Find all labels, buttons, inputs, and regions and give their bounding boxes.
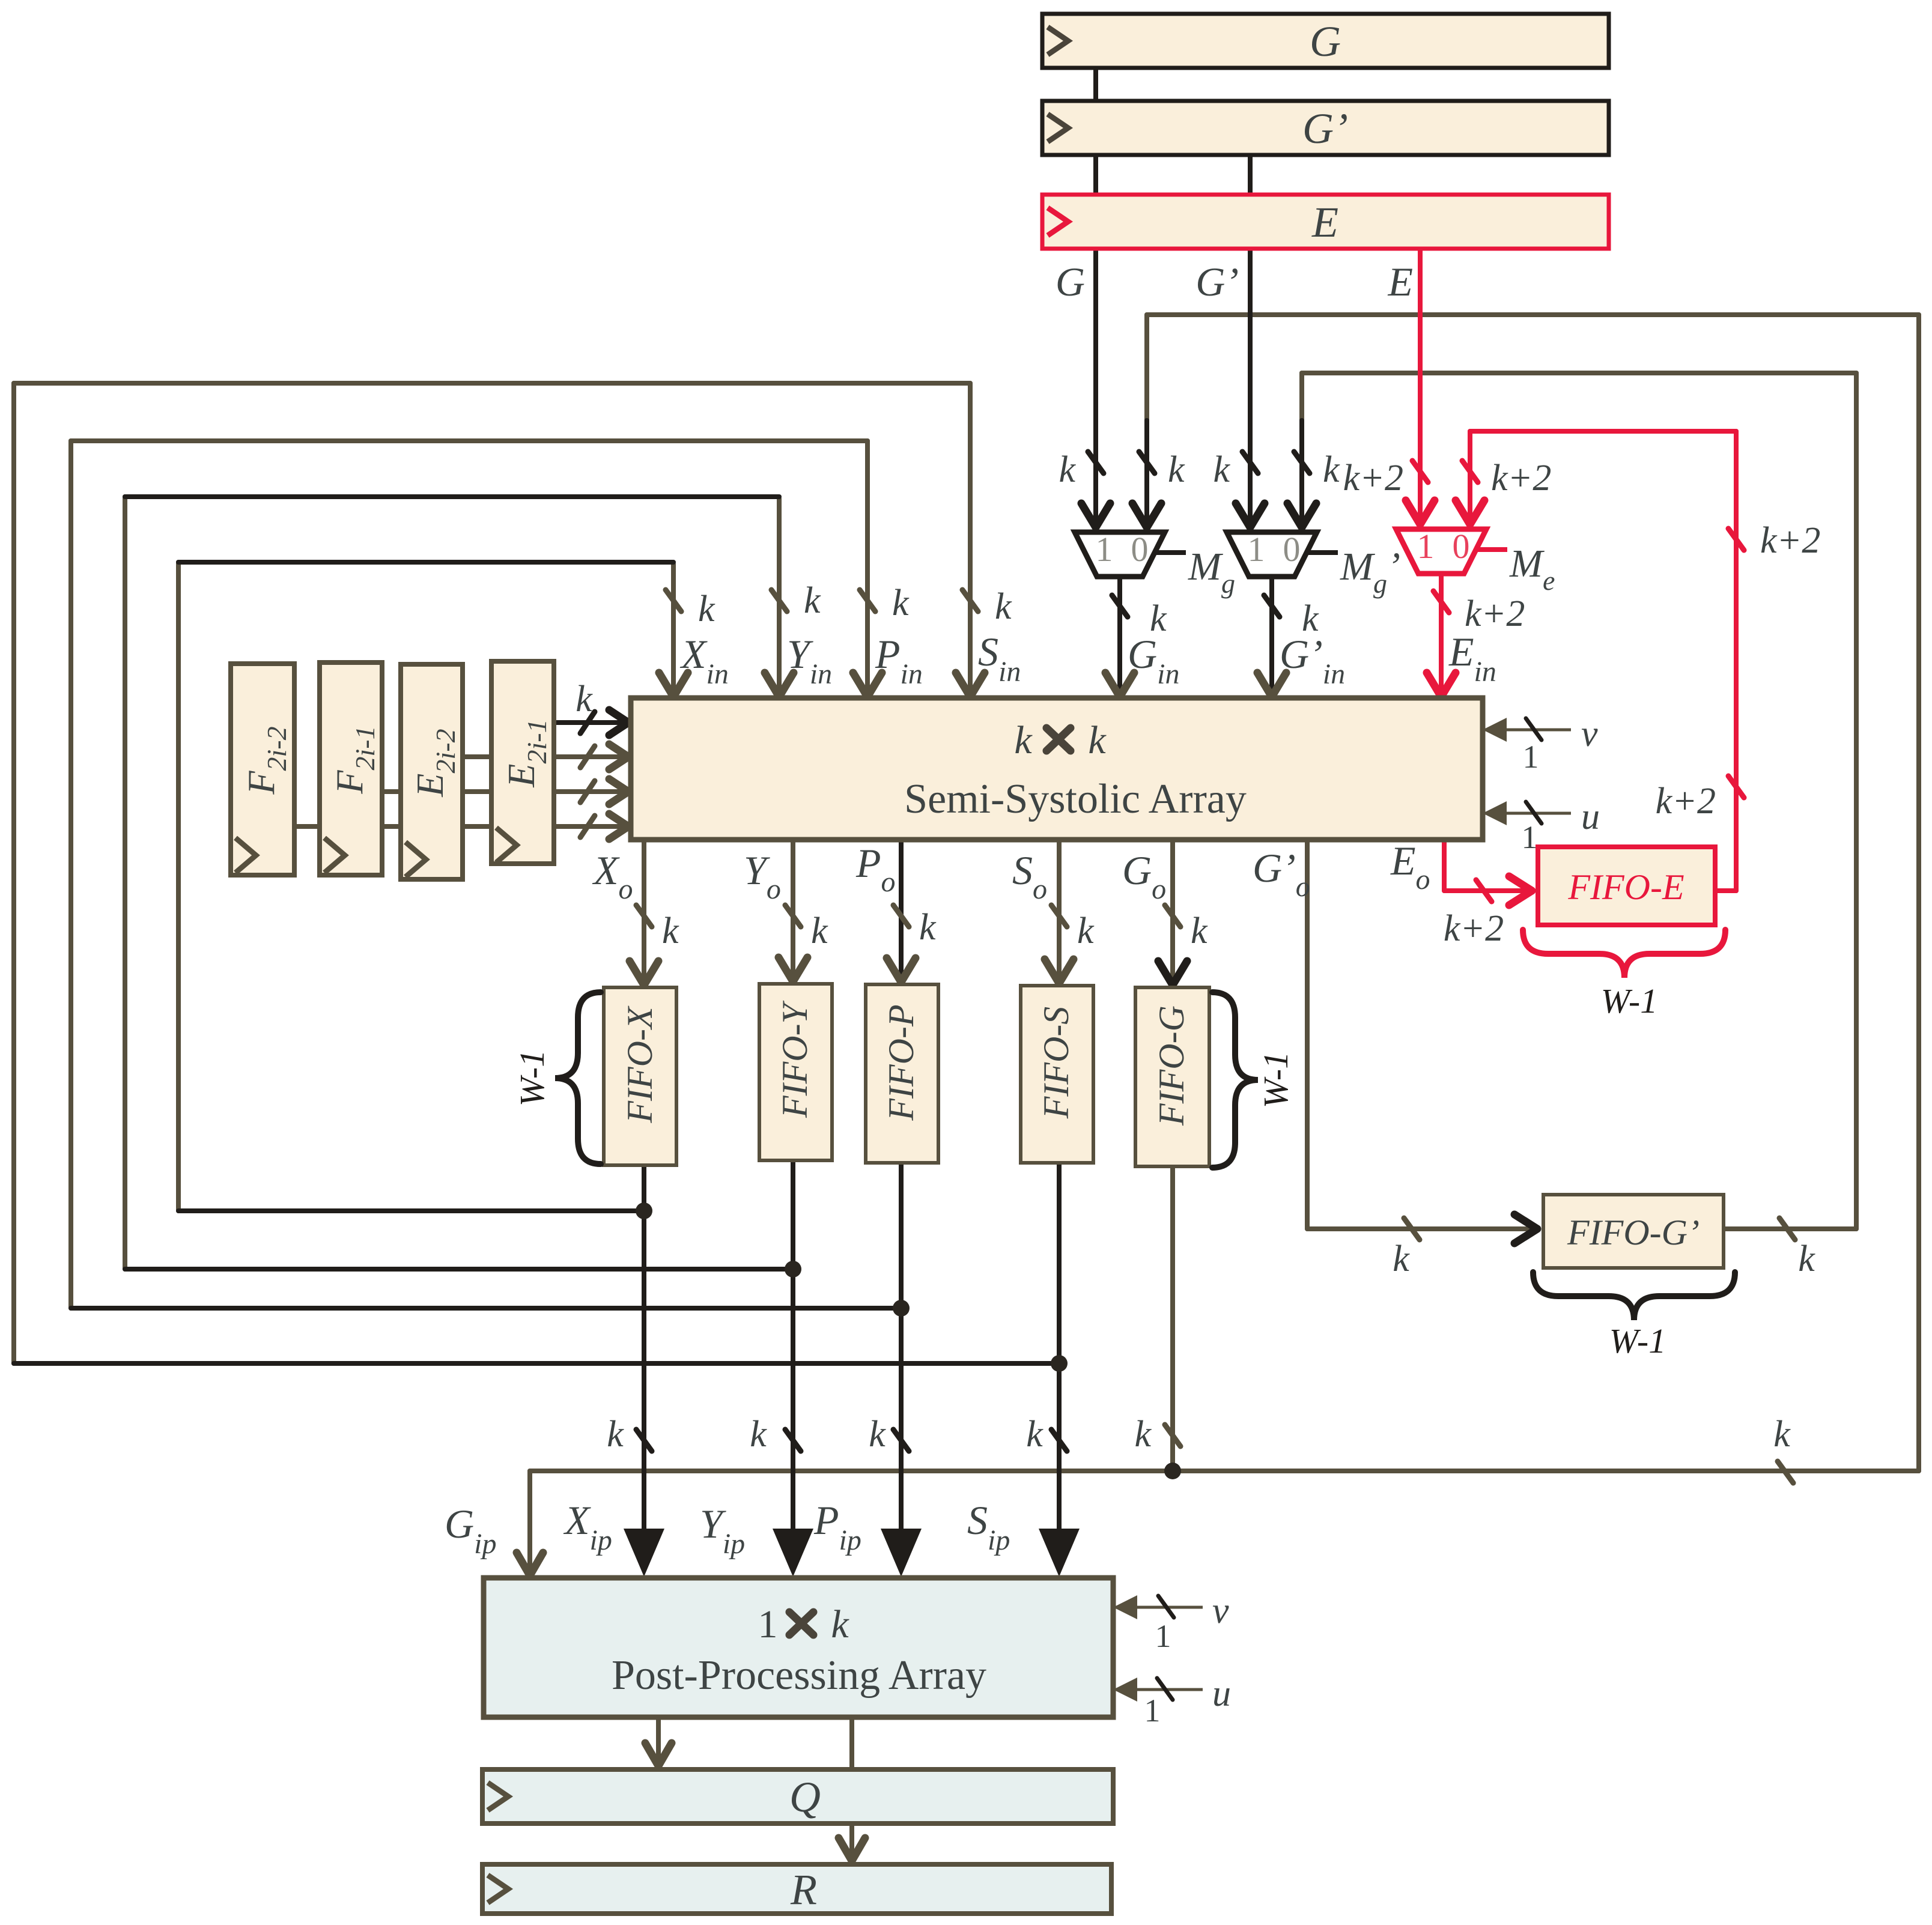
mux Mg — [1075, 530, 1235, 599]
arrowhead Eo into FIFO-E — [1509, 876, 1532, 905]
arrowhead So into FIFO-S — [1045, 959, 1074, 983]
svg-text:1: 1 — [1096, 530, 1113, 569]
svg-text:k: k — [1134, 1414, 1152, 1455]
svg-text:So: So — [1012, 847, 1047, 905]
arrowhead Go loop into Mg — [1132, 503, 1161, 527]
wire G-loop drop into Mg — [1144, 420, 1149, 525]
svg-text:k+2: k+2 — [1444, 908, 1504, 949]
wire FIFO-G output down to rail — [1170, 1166, 1175, 1471]
arrowhead E into Me — [1406, 500, 1435, 524]
arrowhead Sip into PPA (solid) — [1039, 1529, 1080, 1577]
wire row3 F2i-1 to array — [382, 789, 621, 794]
svg-text:k: k — [1191, 911, 1208, 951]
svg-text:k+2: k+2 — [1343, 458, 1403, 499]
register E2i-2 — [401, 664, 463, 879]
arrowhead row2 into array — [609, 744, 628, 769]
svg-text:Po: Po — [855, 840, 896, 898]
wire Eo into FIFO-E — [1444, 888, 1523, 893]
svg-text:G’o: G’o — [1253, 845, 1310, 903]
slash on row3 arrow — [580, 781, 595, 802]
register F2i-1 — [320, 662, 382, 875]
slash on G' wire — [1242, 452, 1258, 473]
wire S-loop left vertical — [11, 383, 16, 1363]
brace W-1 under FIFO-G' — [1533, 1272, 1735, 1320]
svg-text:FIFO-G’: FIFO-G’ — [1567, 1213, 1700, 1252]
wire X-loop left vertical — [176, 562, 181, 1211]
arrowhead Yin — [765, 673, 794, 697]
arrowhead Yip into PPA (solid) — [773, 1529, 813, 1577]
svg-text:k: k — [698, 589, 715, 629]
slash on Yin wire — [771, 590, 787, 611]
wire Xo array to FIFO-X — [642, 840, 646, 979]
svg-text:1: 1 — [758, 1602, 778, 1646]
wire Yin vertical — [777, 499, 782, 691]
wire P-loop left vertical — [68, 441, 73, 1308]
wire PPA to Q left link — [656, 1717, 661, 1761]
svg-text:G: G — [1310, 17, 1341, 65]
slash on E-loop right vertical lower — [1728, 776, 1744, 798]
FIFO-S box — [1021, 986, 1093, 1163]
slash on FIFO-P output — [893, 1429, 909, 1451]
svg-text:0: 0 — [1131, 530, 1149, 569]
wire G'-loop top horizontal — [1302, 371, 1856, 375]
arrowhead G'o into FIFO-G' — [1514, 1214, 1537, 1243]
svg-text:Post-Processing Array: Post-Processing Array — [612, 1652, 986, 1699]
wire G'-loop right vertical — [1854, 373, 1859, 1229]
svg-text:G: G — [1056, 259, 1085, 305]
wire Mg output Gin — [1117, 577, 1122, 691]
arrowhead v into PPA (solid) — [1113, 1595, 1137, 1619]
svg-text:k: k — [831, 1602, 849, 1646]
svg-text:k: k — [804, 580, 821, 621]
svg-text:k: k — [1323, 449, 1340, 490]
wire FIFO-S output to PPA — [1057, 1163, 1062, 1569]
register E — [1042, 195, 1609, 249]
arrowhead Gin — [1105, 673, 1134, 697]
arrowhead row3 into array — [609, 779, 628, 804]
wire PPA to Q right link — [849, 1717, 854, 1769]
wire Me output Ein — [1439, 574, 1444, 691]
slash on u line of PPA — [1157, 1678, 1173, 1700]
svg-text:E: E — [1311, 198, 1338, 246]
arrowhead Xip into PPA (solid) — [624, 1529, 664, 1577]
wire FIFO-E output — [1715, 888, 1736, 893]
slash on row4 arrow — [580, 816, 595, 837]
arrowhead Q to R — [839, 1838, 865, 1861]
arrowhead Xo into FIFO-X — [630, 961, 658, 985]
slash on Ein wire — [1433, 591, 1449, 613]
arrowhead G'o loop into Mg' — [1287, 503, 1316, 527]
arrowhead u into array (solid) — [1483, 801, 1507, 825]
svg-text:Pin: Pin — [875, 631, 923, 690]
slash on Pin wire — [860, 590, 875, 611]
wire Y-loop top horizontal — [125, 494, 779, 499]
register E2i-1 — [491, 661, 554, 864]
slash on Sin wire — [962, 590, 978, 611]
wire v input of array — [1483, 729, 1571, 732]
svg-text:Gip: Gip — [445, 1501, 496, 1560]
wire FIFO-Y output to PPA — [791, 1160, 795, 1569]
svg-text:Go: Go — [1122, 847, 1166, 905]
svg-text:1: 1 — [1523, 739, 1539, 775]
svg-text:Sip: Sip — [967, 1497, 1010, 1556]
svg-text:k: k — [576, 679, 593, 720]
slash on u line of array — [1526, 802, 1542, 823]
wire Po array to FIFO-P — [899, 840, 904, 976]
svg-text:W-1: W-1 — [1609, 1321, 1666, 1360]
svg-text:1: 1 — [1248, 530, 1265, 569]
svg-text:Q: Q — [789, 1773, 821, 1821]
slash on Gin wire — [1112, 595, 1128, 617]
wire Pin vertical — [865, 441, 870, 691]
register F2i-2 — [231, 664, 294, 875]
register R — [482, 1864, 1111, 1914]
slash on Yo wire — [785, 905, 801, 927]
wire E register output — [1418, 249, 1423, 522]
arrowhead Gip into PPA — [517, 1553, 543, 1575]
svg-text:k: k — [995, 586, 1012, 627]
svg-text:k: k — [1213, 449, 1230, 490]
wire G-loop bottom horizontal (Gip rail) — [530, 1469, 1919, 1473]
FIFO-E box — [1538, 847, 1715, 925]
slash on G wire — [1088, 452, 1104, 473]
svg-text:k: k — [1026, 1414, 1043, 1455]
slash on E-loop right vertical upper — [1728, 529, 1744, 550]
register Q — [482, 1769, 1113, 1823]
svg-text:1: 1 — [1522, 819, 1538, 855]
wire P-loop bottom horizontal — [71, 1306, 901, 1311]
slash on FIFO-S output — [1051, 1429, 1067, 1451]
svg-text:FIFO-Y: FIFO-Y — [775, 1000, 815, 1118]
slash on E wire — [1412, 461, 1428, 482]
svg-text:k: k — [1059, 449, 1076, 490]
wire Sin vertical — [968, 383, 973, 691]
svg-text:R: R — [790, 1866, 817, 1914]
svg-text:Yip: Yip — [700, 1501, 745, 1560]
arrowhead v into array (solid) — [1483, 718, 1507, 742]
svg-text:G’in: G’in — [1280, 631, 1345, 690]
slash on FIFO-Y output — [785, 1429, 801, 1451]
wire u input of PPA — [1113, 1688, 1203, 1691]
wire S-loop bottom horizontal — [14, 1361, 1059, 1366]
slash on v line of PPA — [1158, 1596, 1174, 1617]
wire Y-loop left vertical — [123, 497, 127, 1269]
svg-text:k: k — [892, 583, 910, 623]
svg-text:k+2: k+2 — [1491, 458, 1551, 499]
svg-text:v: v — [1581, 714, 1598, 754]
FIFO-G box — [1135, 987, 1209, 1166]
svg-text:k: k — [1393, 1238, 1410, 1279]
slash on G'in wire — [1264, 595, 1280, 617]
wire G-loop drop upper part — [1144, 315, 1149, 420]
svg-text:FIFO-E: FIFO-E — [1567, 867, 1684, 907]
slash on G'o feedback wire — [1294, 452, 1310, 473]
brace W-1 left of FIFO-X — [555, 992, 601, 1164]
svg-text:Mg: Mg — [1188, 545, 1235, 599]
wire E-loop drop into Me — [1468, 431, 1472, 522]
wire G-loop right vertical — [1916, 315, 1921, 1471]
wire E-loop top horizontal — [1470, 429, 1736, 434]
wire row2 E2i-2 to array — [463, 754, 621, 759]
arrowhead Sin — [956, 673, 985, 697]
slash on So wire — [1051, 905, 1067, 927]
register G' — [1042, 101, 1609, 155]
slash on FIFO-X output — [636, 1429, 652, 1451]
slash on FIFO-G output — [1165, 1425, 1180, 1446]
slash on Xin wire — [666, 590, 681, 611]
wire G'-loop drop into Mg' — [1299, 420, 1304, 525]
svg-text:0: 0 — [1283, 530, 1301, 569]
svg-text:k: k — [1088, 718, 1107, 762]
arrowhead G'in — [1257, 673, 1286, 697]
slash on row2 arrow — [580, 746, 595, 768]
wire Xin vertical — [671, 564, 676, 691]
svg-text:k: k — [869, 1414, 886, 1455]
slash on Go feedback wire — [1139, 452, 1155, 473]
junction dot Y loop — [785, 1261, 801, 1278]
wire FIFO-P output to PPA — [899, 1163, 904, 1569]
wire G' register output — [1248, 155, 1253, 525]
arrowhead G' into Mg' — [1236, 503, 1265, 527]
wire G-loop top horizontal — [1147, 312, 1919, 317]
svg-text:Yin: Yin — [787, 631, 832, 690]
arrowhead Eo-loop into Me — [1456, 500, 1484, 524]
slash on Eo-loop drop — [1462, 461, 1478, 482]
arrowhead Pip into PPA (solid) — [881, 1529, 922, 1577]
slash on row1 arrow — [580, 712, 595, 733]
FIFO-X box — [604, 987, 676, 1165]
wire FIFO-G' output to right — [1724, 1226, 1856, 1231]
svg-text:Gin: Gin — [1128, 631, 1179, 690]
svg-text:k+2: k+2 — [1656, 781, 1716, 822]
svg-text:k: k — [750, 1414, 767, 1455]
svg-text:G’: G’ — [1302, 105, 1348, 153]
svg-text:v: v — [1212, 1590, 1229, 1631]
svg-text:E: E — [1387, 259, 1413, 305]
mux Mg' — [1227, 530, 1400, 599]
svg-text:k: k — [811, 911, 828, 951]
svg-text:k: k — [1168, 449, 1185, 490]
mux Me — [1396, 527, 1555, 596]
slash on Go wire — [1165, 905, 1180, 927]
wire v input of PPA — [1113, 1606, 1203, 1609]
wire row4 F2i-2 to array — [294, 824, 621, 829]
svg-text:0: 0 — [1453, 527, 1470, 566]
svg-text:u: u — [1581, 796, 1600, 837]
wire G'o array down — [1305, 840, 1310, 1229]
semi-systolic array box — [631, 698, 1483, 840]
arrowhead Yo into FIFO-Y — [779, 957, 807, 981]
arrowhead Po into FIFO-P — [887, 958, 916, 982]
wire Eo down from array — [1442, 840, 1447, 891]
wire row1 E2i-1 to array — [554, 720, 621, 725]
svg-text:FIFO-X: FIFO-X — [620, 1005, 660, 1124]
wire Yo array to FIFO-Y — [791, 840, 795, 975]
wire Mg' output G'in — [1269, 577, 1274, 691]
brace W-1 right of FIFO-G — [1212, 992, 1258, 1168]
svg-text:W-1: W-1 — [1601, 981, 1657, 1020]
junction dot S loop — [1051, 1355, 1068, 1372]
svg-text:k: k — [1798, 1238, 1815, 1279]
register G — [1042, 14, 1609, 68]
svg-text:k: k — [1077, 911, 1095, 951]
arrowhead u into PPA (solid) — [1113, 1678, 1137, 1702]
slash on FIFO-G' output — [1779, 1218, 1795, 1240]
arrowhead Xin — [659, 673, 688, 697]
wire So array to FIFO-S — [1057, 840, 1062, 977]
wire Y-loop bottom horizontal — [125, 1267, 793, 1272]
arrowhead Ein into array — [1427, 673, 1456, 697]
post-processing array box — [484, 1578, 1113, 1717]
arrowhead Go into FIFO-G — [1158, 961, 1187, 985]
wire G'-loop drop upper part — [1299, 373, 1304, 420]
svg-text:k+2: k+2 — [1760, 520, 1820, 561]
svg-text:G’: G’ — [1195, 259, 1239, 305]
wire G register output — [1093, 68, 1098, 525]
svg-text:k: k — [607, 1414, 624, 1455]
slash on Po wire — [893, 905, 909, 927]
svg-text:Yo: Yo — [744, 847, 781, 905]
svg-text:k: k — [662, 911, 679, 951]
svg-text:FIFO-G: FIFO-G — [1152, 1005, 1191, 1126]
svg-text:u: u — [1212, 1673, 1231, 1714]
wire FIFO-X output to PPA — [642, 1165, 646, 1569]
wire E-loop right vertical — [1734, 431, 1739, 891]
svg-text:1: 1 — [1417, 527, 1435, 566]
wire Gip drop into PPA — [527, 1471, 532, 1569]
svg-text:1: 1 — [1144, 1693, 1161, 1729]
svg-text:k+2: k+2 — [1465, 593, 1525, 634]
brace W-1 under FIFO-E — [1523, 930, 1725, 978]
svg-text:W-1: W-1 — [512, 1050, 551, 1106]
svg-text:k: k — [1773, 1414, 1791, 1455]
wire G'o horizontal into FIFO-G' — [1307, 1226, 1529, 1231]
wire X-loop top horizontal — [178, 560, 673, 565]
svg-text:Eo: Eo — [1390, 838, 1430, 896]
FIFO-G' box — [1543, 1195, 1724, 1268]
svg-text:k: k — [1014, 718, 1033, 762]
arrowhead row4 into array — [609, 814, 628, 839]
svg-text:Xip: Xip — [563, 1497, 612, 1556]
slash on Gip rail right — [1778, 1461, 1793, 1483]
svg-text:Semi-Systolic Array: Semi-Systolic Array — [904, 776, 1247, 822]
wire P-loop top horizontal — [71, 438, 867, 443]
wire X-loop bottom horizontal — [178, 1208, 644, 1213]
svg-text:FIFO-P: FIFO-P — [881, 1004, 921, 1121]
junction dot G loop — [1164, 1463, 1181, 1479]
FIFO-Y box — [759, 984, 832, 1160]
svg-text:k: k — [919, 907, 937, 948]
arrowhead row1 into array (double chevron) — [609, 710, 628, 735]
arrowhead PPA to Q — [645, 1743, 672, 1766]
arrowhead G into Mg — [1081, 503, 1110, 527]
slash on Eo horizontal — [1476, 880, 1492, 902]
wire Go array to FIFO-G — [1170, 840, 1175, 979]
svg-text:Mg’: Mg’ — [1340, 545, 1400, 599]
slash on v line of array — [1526, 718, 1542, 740]
svg-text:Me: Me — [1509, 542, 1555, 596]
svg-text:Pip: Pip — [813, 1497, 861, 1556]
slash on G'o horizontal — [1404, 1218, 1420, 1240]
svg-text:1: 1 — [1155, 1618, 1171, 1654]
slash on Xo wire — [636, 905, 652, 927]
wire Q to R link — [849, 1823, 854, 1856]
wire S-loop top horizontal — [14, 381, 970, 386]
junction dot P loop — [893, 1300, 910, 1317]
svg-text:FIFO-S: FIFO-S — [1036, 1007, 1076, 1120]
FIFO-P box — [866, 984, 938, 1163]
svg-text:Xo: Xo — [592, 847, 633, 905]
arrowhead Pin — [853, 673, 882, 697]
junction dot X loop — [636, 1202, 652, 1219]
wire u input of array — [1483, 812, 1571, 815]
svg-text:W-1: W-1 — [1256, 1052, 1295, 1108]
